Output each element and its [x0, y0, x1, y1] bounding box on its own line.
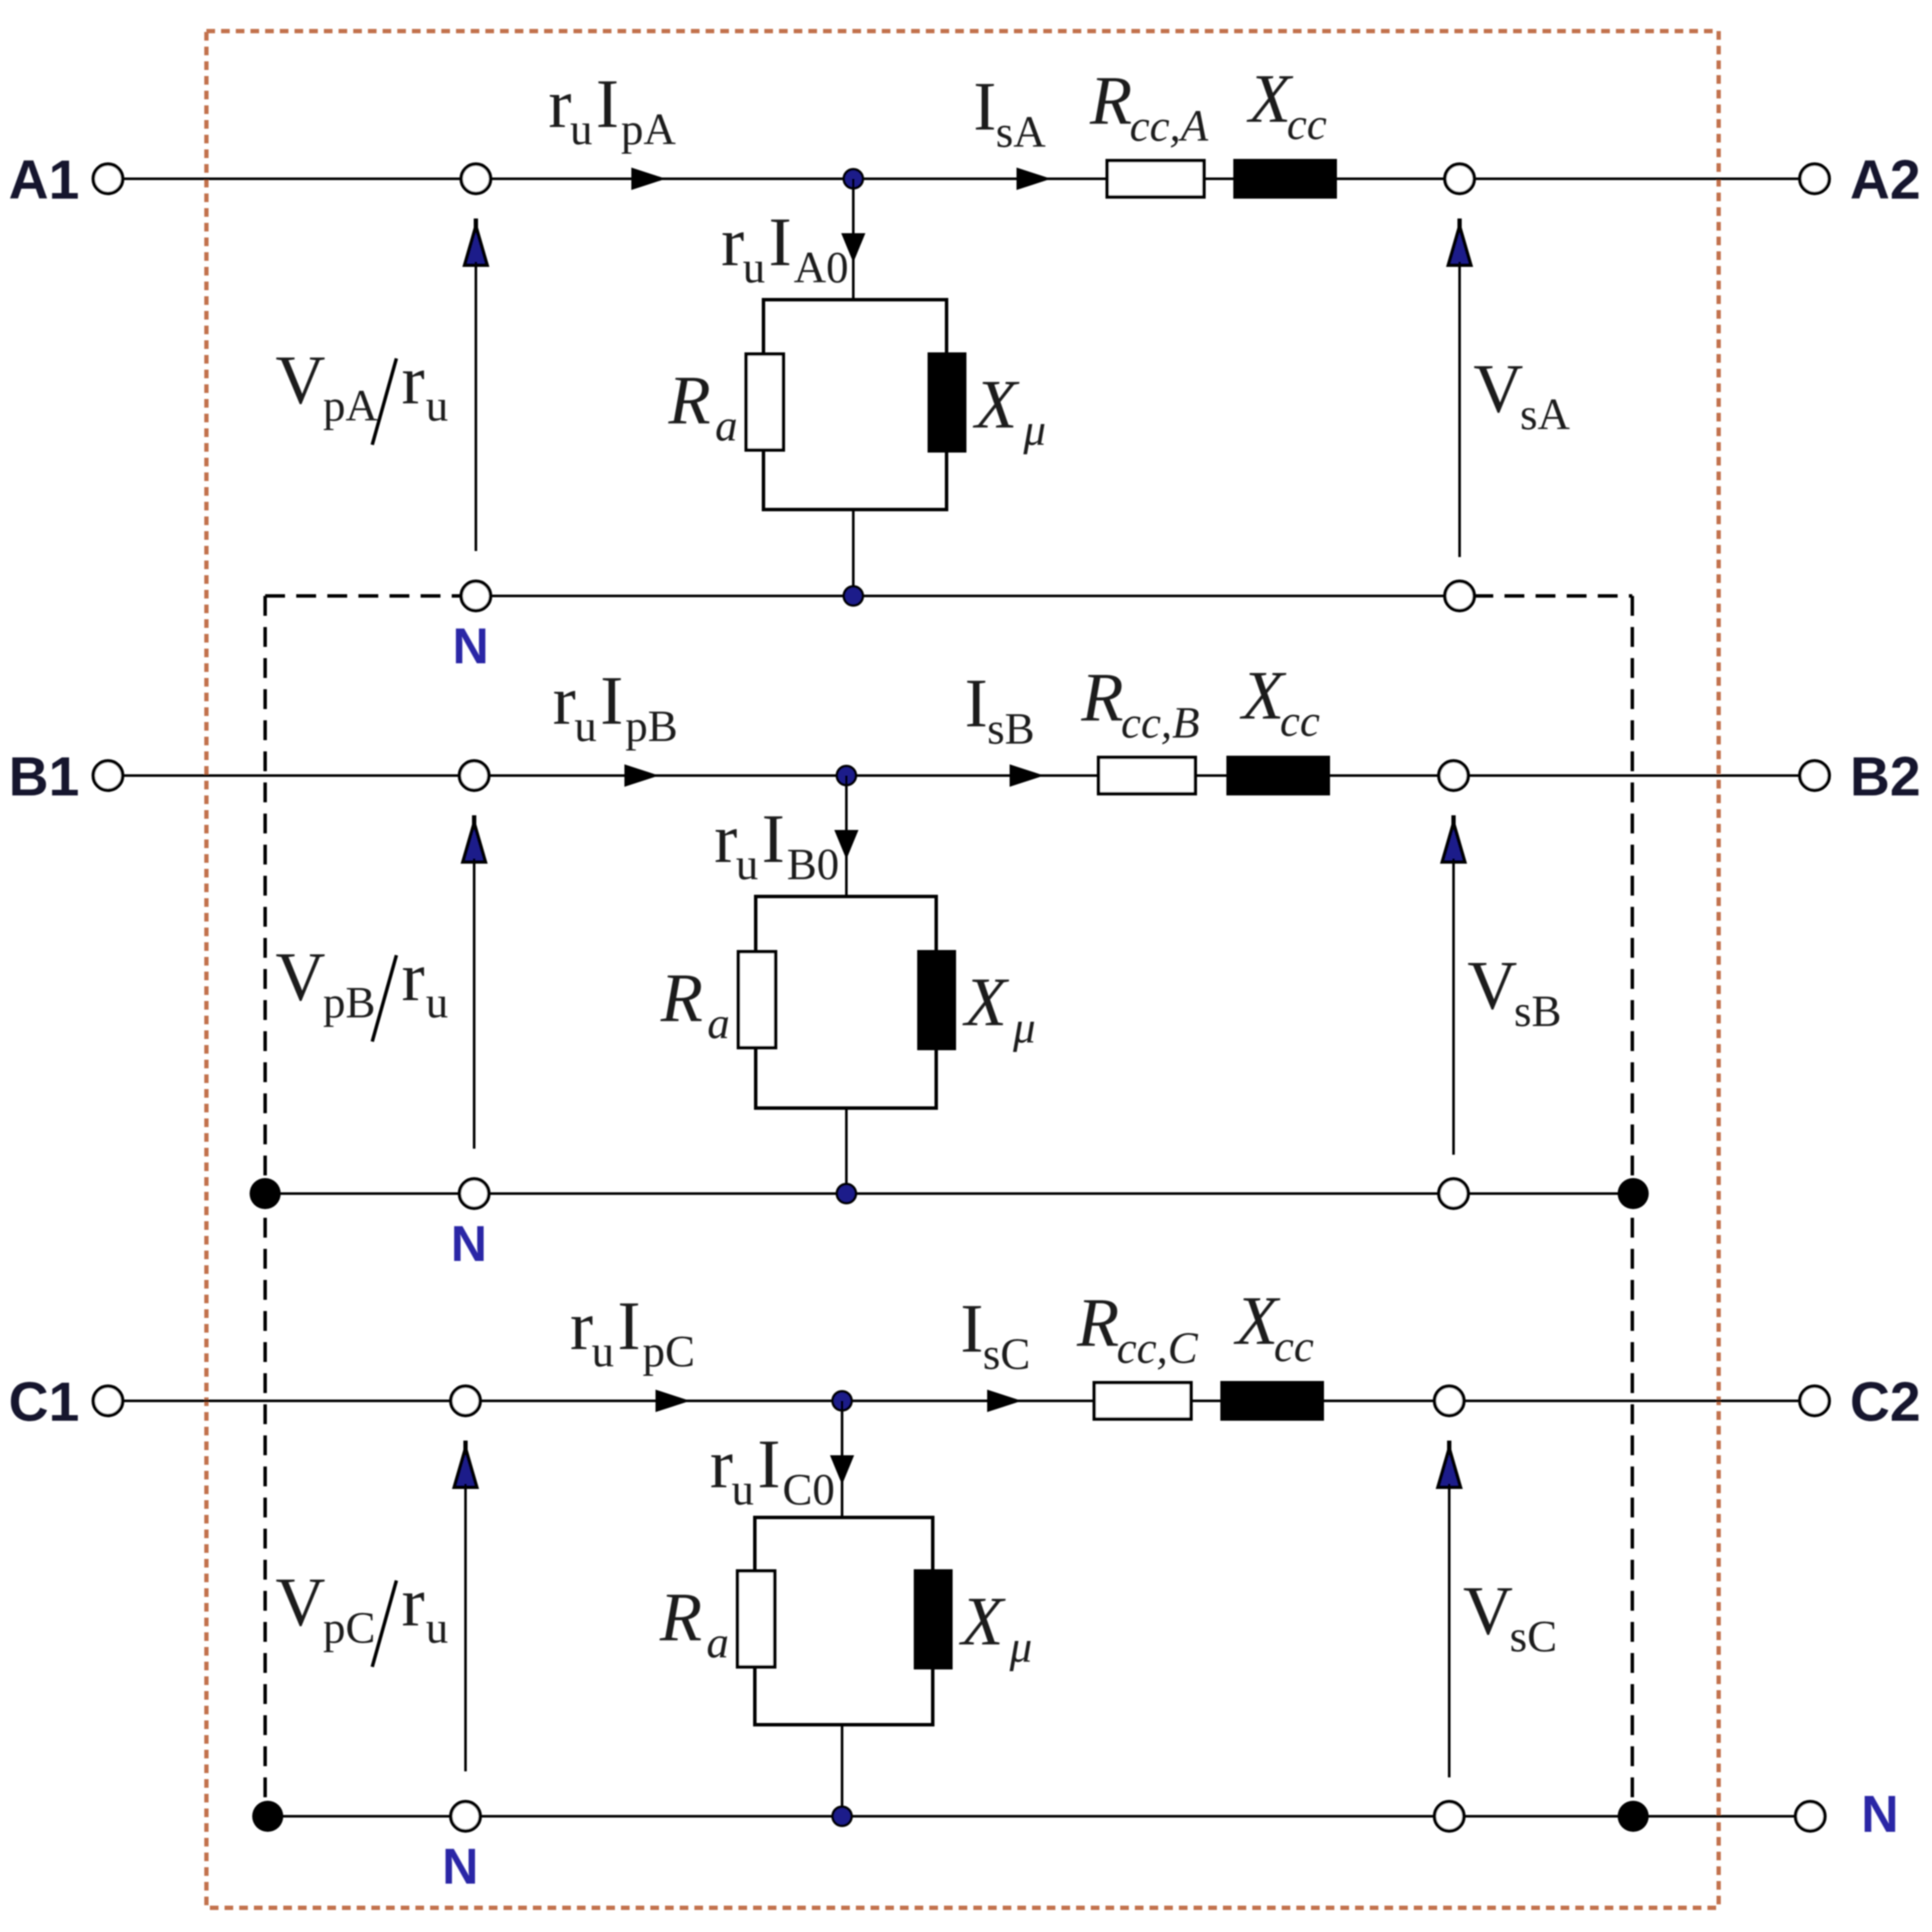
node: phase B primary port circle [459, 761, 489, 790]
node: phase B shunt junction on neutral rail [837, 1184, 856, 1203]
node: neutral port circle right (A) [1445, 581, 1474, 611]
reactance X_cc (B) [1228, 757, 1328, 794]
node: neutral port circle left (C) [451, 1802, 480, 1831]
arrow: secondary current I_sB [1010, 764, 1044, 787]
svg-text:N: N [451, 1216, 487, 1272]
node: neutral port circle left (A) [461, 581, 491, 611]
resistor R_cc,A [1107, 161, 1204, 197]
arrow: secondary voltage V_sB [1452, 815, 1456, 830]
node: phase C primary port circle [451, 1386, 480, 1416]
node: phase C shunt junction on wire [833, 1391, 852, 1410]
arrow: secondary current I_sA [1017, 168, 1051, 190]
terminal B2 [1800, 761, 1829, 790]
node: phase A primary port circle [461, 164, 491, 193]
arrow: primary current of phase C [656, 1390, 690, 1412]
node: phase A secondary port circle [1445, 164, 1474, 193]
wire: magnetising block to neutral rail (A) [852, 510, 855, 596]
arrow: primary voltage V_pB/r_u [472, 815, 477, 830]
wire: phase B main conductor B1-B2 [123, 775, 1800, 777]
node: neutral port circle right (C) [1435, 1802, 1464, 1831]
arrow: primary current of phase A [631, 168, 666, 190]
reactance X_cc (A) [1235, 161, 1335, 197]
wire: neutral rail under phase C (solid) [268, 1815, 1796, 1818]
resistor R_a (A) [746, 354, 783, 450]
resistor R_cc,B [1099, 757, 1195, 794]
terminal C2 [1800, 1386, 1829, 1416]
svg-text:N: N [453, 618, 489, 675]
junction dot right on neutral rail B [1618, 1178, 1649, 1209]
arrow: secondary voltage V_sC [1447, 1441, 1452, 1455]
arrow: secondary current I_sC [987, 1390, 1022, 1412]
node: phase C secondary port circle [1435, 1386, 1464, 1416]
svg-text:A1: A1 [9, 149, 79, 211]
wire: shunt branch from node down to magnetising block (C) [841, 1401, 844, 1517]
terminal C1 [93, 1386, 123, 1416]
node: phase B shunt junction on wire [837, 766, 856, 785]
wire: shunt branch from node down to magnetising block (B) [846, 776, 848, 896]
terminal A1 [93, 164, 123, 193]
node: phase A shunt junction on wire [844, 169, 863, 188]
node: phase C shunt junction on neutral rail [833, 1807, 852, 1826]
node: neutral port circle right (B) [1439, 1179, 1468, 1208]
arrow: primary voltage V_pC/r_u [464, 1441, 468, 1455]
node: neutral port circle left (B) [459, 1179, 489, 1208]
reactance X_mu (B) [919, 952, 954, 1048]
wire: dashed link right of neutral rail A [1473, 594, 1632, 598]
wire: neutral rail under phase B (solid) [265, 1193, 1633, 1195]
junction dot right on neutral rail C [1618, 1801, 1649, 1832]
wire: neutral rail under phase A (solid) [476, 595, 1460, 598]
junction dot left on neutral rail C [252, 1801, 283, 1832]
arrow: magnetising current r_u I_C0 [830, 1455, 854, 1485]
terminal B1 [93, 761, 123, 790]
node: phase A shunt junction on neutral rail [844, 586, 863, 605]
wire: right dashed neutral bus vertical [1631, 596, 1634, 1816]
arrow: magnetising current r_u I_B0 [834, 830, 858, 859]
reactance X_mu (C) [915, 1571, 951, 1668]
wire: magnetising block outline (A) [763, 300, 947, 510]
resistor R_a (C) [738, 1571, 775, 1667]
wire: magnetising block outline (B) [756, 896, 936, 1108]
svg-text:B1: B1 [9, 745, 79, 808]
wire: magnetising block outline (C) [755, 1517, 933, 1725]
wire: shunt branch from node down to magnetising block (A) [852, 179, 855, 300]
arrow: secondary voltage V_sA [1458, 219, 1462, 233]
wire: phase A main conductor A1-A2 [123, 178, 1800, 181]
arrow: primary voltage V_pA/r_u [474, 219, 478, 233]
wire: magnetising block to neutral rail (B) [846, 1108, 848, 1194]
junction dot left on neutral rail B [250, 1178, 281, 1209]
node: phase B secondary port circle [1439, 761, 1468, 790]
arrow: magnetising current r_u I_A0 [841, 233, 865, 263]
svg-text:A2: A2 [1850, 149, 1921, 211]
terminal A2 [1800, 164, 1829, 193]
arrow: primary current of phase B [624, 764, 659, 787]
resistor R_cc,C [1094, 1383, 1191, 1419]
transformer-bank dotted boundary box [206, 31, 1719, 1908]
svg-text:B2: B2 [1850, 745, 1921, 808]
terminal N [1796, 1802, 1825, 1831]
svg-text:C1: C1 [9, 1371, 79, 1433]
svg-text:N: N [1861, 1785, 1898, 1843]
wire: dashed link left of neutral rail A [265, 594, 462, 598]
wire: phase C main conductor C1-C2 [123, 1400, 1800, 1403]
svg-text:C2: C2 [1850, 1371, 1921, 1433]
reactance X_mu (A) [929, 354, 965, 451]
wire: magnetising block to neutral rail (C) [841, 1725, 844, 1816]
reactance X_cc (C) [1222, 1383, 1322, 1419]
svg-text:N: N [442, 1839, 478, 1895]
wire: left dashed neutral bus vertical [263, 596, 267, 1816]
resistor R_a (B) [738, 952, 776, 1048]
